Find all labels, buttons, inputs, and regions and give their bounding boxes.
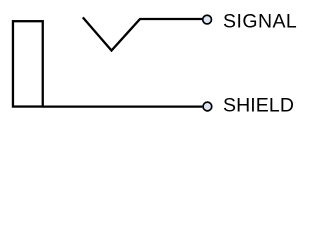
transducer element rectangle [13, 21, 43, 106]
svg-text:SHIELD: SHIELD [223, 95, 294, 117]
terminal SIGNAL [203, 15, 212, 24]
svg-text:SIGNAL: SIGNAL [223, 11, 297, 33]
wire (shield wire, bottom) [43, 105, 203, 107]
wire (signal lead, V bend) [83, 17, 203, 50]
terminal SHIELD [203, 102, 212, 111]
